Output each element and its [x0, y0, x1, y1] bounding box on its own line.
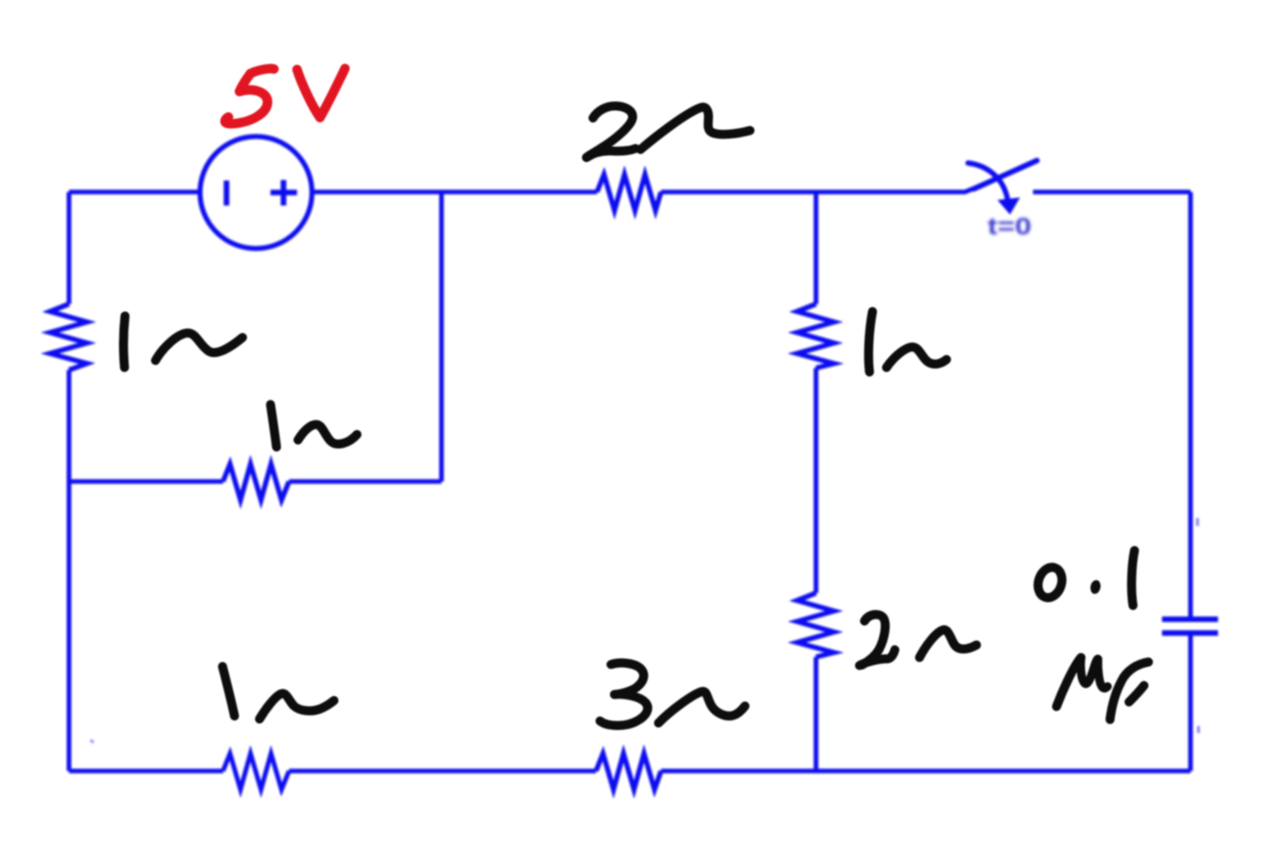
resistor R3 1ohm middle zigzag: [223, 464, 289, 500]
label 1ohm bottom-left: tilde: [260, 694, 335, 719]
wire bottom middle segment: [289, 769, 596, 774]
wire left vertical lower: [67, 370, 72, 771]
wire middle vertical centre: [814, 368, 819, 593]
switch SW1 blade: [974, 161, 1038, 190]
label uF: F: [1110, 662, 1149, 720]
wire source to resistor R2: [312, 190, 597, 195]
label 1ohm mid-vertical: tilde: [887, 347, 947, 368]
wire middle vertical top: [814, 192, 819, 304]
V1 minus terminal: [224, 181, 230, 206]
svg-text:t=0: t=0: [988, 214, 1032, 241]
wire middle horizontal right part: [289, 479, 442, 484]
resistor R7 3ohm bottom zigzag: [596, 754, 661, 790]
capacitor C1 bottom plate: [1162, 630, 1218, 636]
label 0.1: digit 1: [1132, 551, 1135, 606]
V1 plus terminal: [271, 180, 298, 206]
label 1ohm middle-h: tilde: [298, 425, 357, 444]
wire middle horizontal left part: [69, 479, 223, 484]
label 5V: [225, 69, 345, 124]
switch SW1 actuation arc: [968, 163, 1008, 199]
label 2ohm mid-vertical: tilde: [920, 630, 977, 658]
label 2ohm top: tilde: [641, 107, 751, 149]
wire left vertical upper: [67, 192, 72, 304]
stray speck bottom left: [91, 740, 94, 743]
node junction at source right / inner branch: [439, 192, 444, 482]
label 1ohm left: tilde: [156, 333, 243, 361]
resistor R4 1ohm mid-vertical zigzag: [797, 304, 834, 368]
label 0.1: digit 0: [1034, 564, 1065, 601]
label 2ohm top: digit 2: [587, 106, 633, 158]
wire right vertical lower (capacitor to bottom corner): [1188, 633, 1193, 771]
wire right vertical upper (to capacitor): [1188, 192, 1193, 619]
wire R2 to switch: [661, 189, 974, 193]
switch SW1 arrowhead: [998, 198, 1021, 215]
wire top-left: left corner to source: [69, 190, 201, 195]
resistor R5 2ohm mid-vertical zigzag: [797, 593, 834, 657]
label 1ohm left: digit 1: [124, 316, 125, 368]
label 3ohm bottom: tilde: [659, 691, 746, 723]
label 1ohm mid-vertical: digit 1: [869, 312, 873, 373]
wire bottom right segment: [661, 769, 1191, 774]
wire middle vertical bottom: [814, 657, 819, 771]
label 3ohm bottom: digit 3: [611, 663, 644, 695]
resistor R1 1ohm left zigzag: [50, 304, 87, 370]
label 2ohm mid-vertical: digit 2: [862, 615, 885, 665]
label 1ohm bottom-left: digit 1: [223, 667, 235, 717]
resistor R6 1ohm bottom zigzag: [223, 754, 289, 790]
label uF: mu: [1057, 658, 1082, 707]
resistor R2 2ohm zigzag: [597, 175, 661, 211]
voltage source V1 circle: [200, 137, 312, 249]
capacitor C1 top plate: [1162, 617, 1218, 623]
label 1ohm middle-h: digit 1: [271, 405, 277, 448]
stray speck upper right: [1196, 518, 1199, 526]
wire switch to top-right corner: [1033, 190, 1191, 195]
wire bottom left segment: [69, 769, 223, 774]
stray speck lower right: [1197, 726, 1200, 733]
label 0.1: decimal point: [1089, 579, 1102, 595]
